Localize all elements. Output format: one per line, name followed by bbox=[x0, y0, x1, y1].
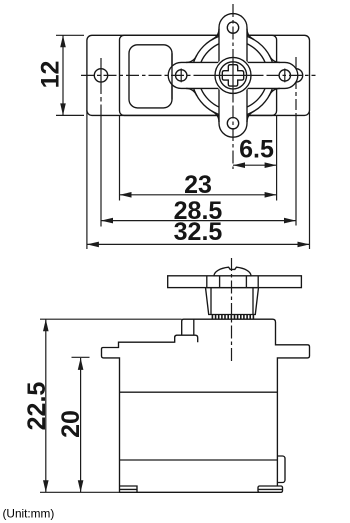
svg-text:(Unit:mm): (Unit:mm) bbox=[3, 506, 55, 520]
svg-text:12: 12 bbox=[37, 61, 65, 89]
svg-text:6.5: 6.5 bbox=[239, 136, 274, 164]
svg-text:23: 23 bbox=[184, 171, 212, 199]
svg-text:20: 20 bbox=[57, 410, 85, 438]
svg-text:22.5: 22.5 bbox=[23, 382, 51, 431]
svg-text:32.5: 32.5 bbox=[174, 218, 223, 246]
